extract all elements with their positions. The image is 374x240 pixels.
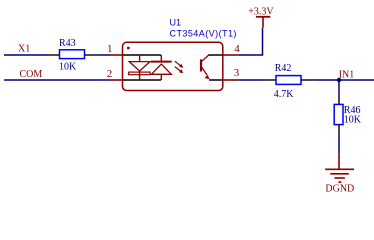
svg-text:+3.3V: +3.3V	[248, 6, 274, 17]
optocoupler U1 body	[123, 42, 223, 90]
pin 1 marker dot	[127, 47, 130, 50]
light arrow lower	[175, 67, 184, 74]
wire R46 to ground	[338, 135, 340, 154]
svg-text:4: 4	[234, 43, 240, 55]
LED D-right (anode down)	[151, 55, 172, 80]
phototransistor emitter	[202, 67, 210, 79]
internal collector wire	[209, 54, 223, 56]
svg-text:3: 3	[234, 67, 240, 79]
ground DGND symbol	[325, 154, 354, 182]
svg-text:CT354A(V)(T1): CT354A(V)(T1)	[170, 28, 237, 38]
opto U1 pin 4	[223, 54, 238, 56]
internal top rail	[123, 54, 161, 56]
svg-text:4.7K: 4.7K	[274, 89, 295, 100]
power +3.3V bar	[256, 16, 270, 18]
svg-text:IN1: IN1	[339, 69, 355, 80]
svg-text:10K: 10K	[344, 115, 362, 126]
svg-text:DGND: DGND	[325, 184, 354, 195]
svg-text:10K: 10K	[59, 62, 77, 73]
wire X1 net	[4, 54, 48, 56]
opto U1 pin 2	[110, 79, 123, 81]
svg-text:R43: R43	[59, 38, 76, 49]
resistor R43	[48, 50, 98, 59]
svg-text:COM: COM	[20, 69, 43, 80]
light arrow upper	[175, 61, 184, 68]
internal bottom rail	[123, 79, 161, 81]
wire R43 to U1 pin1	[98, 54, 110, 56]
wire IN1 down to R46	[338, 80, 340, 92]
wire R42 to IN1 and right edge	[315, 79, 374, 81]
internal emitter wire	[209, 79, 223, 81]
power +3.3V stem	[262, 17, 264, 28]
resistor R42	[264, 76, 315, 85]
svg-text:X1: X1	[18, 44, 30, 55]
resistor R46	[334, 92, 343, 135]
junction node IN1	[337, 78, 341, 82]
phototransistor collector	[202, 55, 209, 61]
opto U1 pin 1	[110, 54, 123, 56]
svg-text:1: 1	[107, 43, 113, 55]
opto U1 pin 3	[223, 79, 238, 81]
phototransistor Q (base bar)	[200, 59, 202, 71]
wire COM net	[4, 79, 110, 81]
svg-text:2: 2	[107, 68, 113, 80]
wire pin4 to +3.3V	[238, 28, 262, 55]
svg-text:U1: U1	[170, 18, 182, 28]
LED D-left (anode up)	[129, 55, 150, 80]
svg-text:R42: R42	[275, 63, 292, 74]
wire pin3 to R42	[238, 79, 264, 81]
